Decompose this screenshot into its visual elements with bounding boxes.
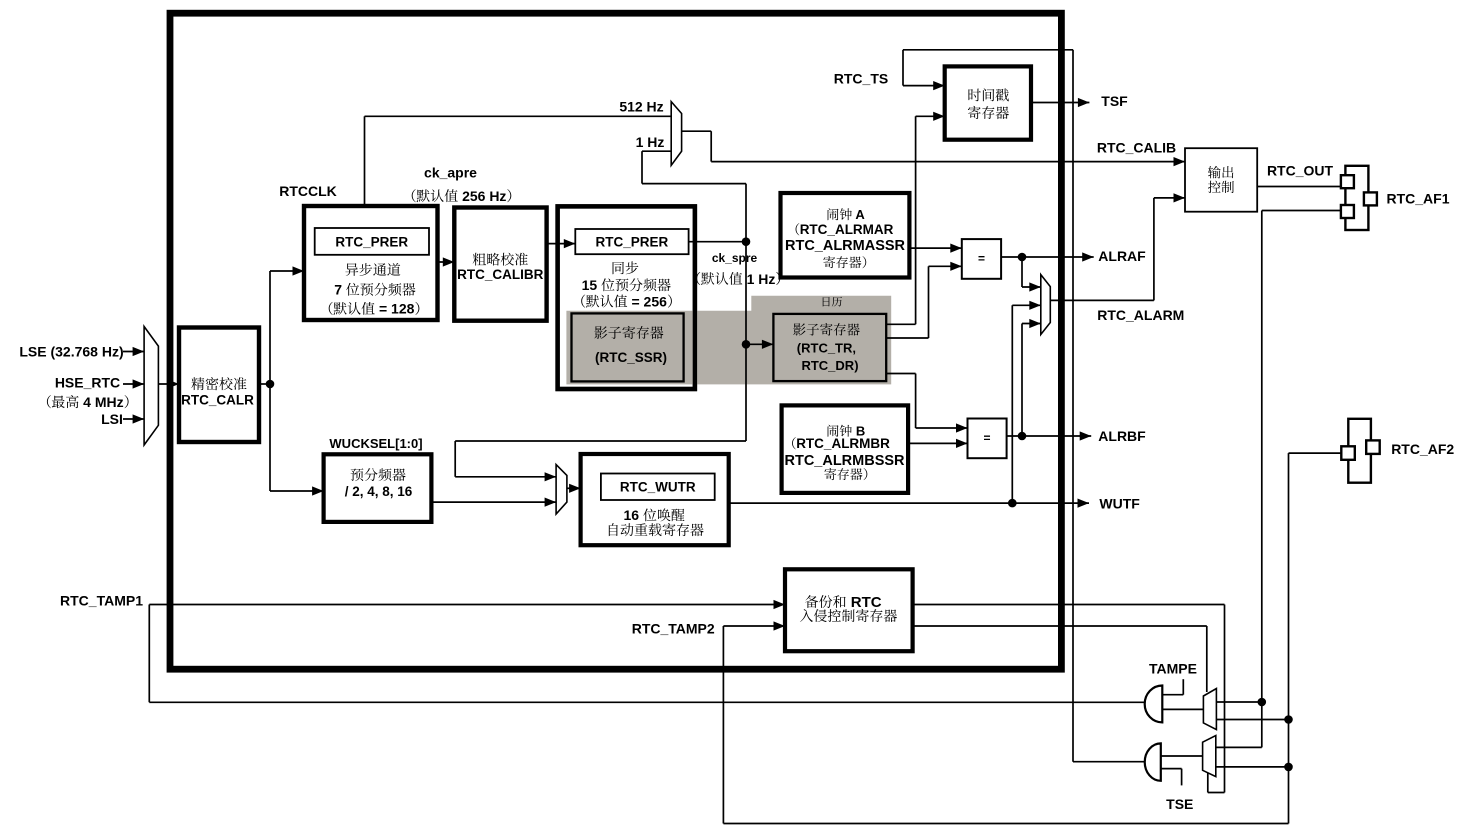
register shadow RTC_SSR box [572, 313, 684, 381]
svg-text:TSF: TSF [1101, 93, 1128, 109]
arrows [133, 347, 145, 356]
label alarm B cn [828, 425, 839, 437]
wire TAMPE mux to AF1 line [1216, 701, 1261, 703]
block async 7-bit prescaler [304, 206, 438, 320]
svg-text:LSE (32.768 Hz): LSE (32.768 Hz) [19, 344, 123, 360]
wire ck_spre to calendar [746, 343, 773, 345]
svg-text:=: = [983, 431, 990, 445]
wire LSE input [123, 351, 144, 353]
svg-text:ALRBF: ALRBF [1098, 428, 1146, 444]
wire RTC_TS top loop [903, 49, 1073, 51]
label fine calibration cn [191, 377, 204, 390]
wire TAMPE enable [1162, 694, 1183, 696]
svg-text:RTC_ALRMAR: RTC_ALRMAR [800, 222, 894, 237]
svg-text:HSE_RTC: HSE_RTC [55, 375, 120, 391]
label default 1Hz cn [696, 272, 700, 285]
label output cn [1208, 166, 1221, 179]
wire ck_spre vertical [745, 184, 747, 441]
wire timestamp select vertical [1072, 50, 1074, 762]
label tamper control cn [800, 609, 813, 622]
wire to TSE gate [1073, 761, 1145, 763]
label coarse calibration cn [473, 253, 486, 266]
wire TAMPE gate output [1162, 708, 1203, 710]
wire TSE mux to AF1 line [1216, 746, 1262, 748]
wire LSI input [123, 418, 144, 420]
svg-text:RTC_WUTR: RTC_WUTR [620, 480, 696, 495]
svg-text:ck_spre: ck_spre [712, 251, 758, 265]
wire RTC_OUT to AF1 pin [1257, 186, 1341, 188]
wire TAMPE mux to AF2 line [1216, 719, 1288, 721]
svg-text:RTC_ALRMBR: RTC_ALRMBR [796, 436, 890, 451]
wire backup output to TSE mux select [913, 604, 1225, 606]
svg-text:RTC_CALIB: RTC_CALIB [1097, 140, 1176, 156]
comparator B [968, 419, 1007, 459]
node WUTF branch [1008, 499, 1017, 508]
node junction RTC_CALR output [266, 380, 275, 389]
outer RTC boundary box [170, 13, 1061, 669]
label alarm B reg3 cn [824, 468, 836, 480]
wire sync PRER output to ck_spre node [689, 241, 746, 243]
block alarm A registers [781, 193, 910, 278]
node ck_spre top [742, 237, 751, 246]
wire TSE mux to AF2 line [1216, 766, 1289, 768]
wire alarm B to comparator B [908, 442, 968, 444]
label max 4MHz cn [47, 395, 51, 408]
label async channel cn [345, 263, 358, 276]
block alarm B registers [782, 405, 909, 493]
svg-text:ALRAF: ALRAF [1098, 248, 1146, 264]
svg-text:15: 15 [582, 277, 598, 293]
calendar gray region [566, 296, 891, 385]
svg-text:7: 7 [334, 282, 342, 298]
wire calendar to comparator B [885, 373, 916, 375]
svg-text:256 Hz: 256 Hz [458, 188, 506, 204]
wire RTC_ALARM to output control [1050, 299, 1154, 301]
block output control [1185, 148, 1257, 212]
block coarse calibration RTC_CALIBR [454, 208, 546, 321]
node ALRAF branch [1018, 253, 1027, 262]
svg-text:=: = [978, 252, 985, 266]
block sync prescaler border restroke [558, 206, 695, 389]
wire alarm A to comparator A [909, 247, 961, 249]
wire to async prescaler [270, 270, 304, 272]
label backup rtc cn [805, 595, 818, 608]
label timestamp cn 2 [968, 106, 981, 119]
register RTC_PRER async inner box [315, 228, 429, 255]
node ALRBF branch [1018, 432, 1027, 441]
svg-text:(RTC_TR,: (RTC_TR, [797, 341, 856, 356]
mux clock input LSE/HSE/LSI [144, 327, 158, 446]
register RTC_PRER sync inner box [575, 229, 688, 254]
label alarm A cn [828, 208, 839, 220]
wire ALRBF output [1007, 435, 1092, 437]
wire ALRAF branch to alarm mux [1021, 257, 1023, 287]
wire calib mux output [682, 130, 712, 132]
svg-text:A: A [852, 207, 865, 222]
label wakeup prescaler cn [351, 468, 364, 481]
wire AF1 pin tamper line [1262, 210, 1341, 212]
wire HSE input [123, 383, 144, 385]
label control cn [1208, 181, 1221, 193]
svg-text:WUTF: WUTF [1099, 495, 1140, 511]
node AF2 junction 2 [1284, 763, 1293, 772]
label default 256Hz cn [412, 189, 416, 202]
label alarm A reg3 cn [823, 256, 835, 268]
pin RTC_AF2 [1348, 419, 1371, 483]
wire calendar to comparator A [885, 337, 929, 339]
svg-text:RTC: RTC [847, 594, 882, 611]
label alarm A reg1 [796, 223, 800, 235]
svg-text:TSE: TSE [1166, 796, 1193, 812]
wire AF2 pin line [1289, 452, 1342, 454]
svg-text:1 Hz: 1 Hz [636, 134, 665, 150]
wire RTC_CALIB to output control [711, 161, 1185, 163]
mux wakeup clock [556, 465, 567, 514]
wire WUTF output [729, 502, 1089, 504]
svg-text:/ 2, 4, 8, 16: / 2, 4, 8, 16 [345, 484, 413, 499]
wire TSF output [1031, 102, 1089, 104]
gate TSE [1145, 743, 1161, 780]
svg-text:RTC_ALRMBSSR: RTC_ALRMBSSR [784, 453, 905, 469]
block fine calibration RTC_CALR [179, 328, 259, 443]
svg-text:512 Hz: 512 Hz [619, 99, 663, 115]
svg-text:RTCCLK: RTCCLK [279, 183, 337, 199]
wire wakeup mux to RTC_WUTR [567, 487, 581, 489]
svg-text:RTC_CALR: RTC_CALR [181, 392, 254, 407]
label timestamp cn 1 [968, 89, 980, 102]
wire input mux to RTC_CALR [158, 383, 179, 385]
wire WUTF branch to alarm mux [1011, 305, 1013, 503]
svg-text:RTC_PRER: RTC_PRER [596, 235, 669, 250]
svg-text:RTC_DR): RTC_DR) [801, 358, 858, 373]
svg-text:RTC_OUT: RTC_OUT [1267, 163, 1334, 179]
svg-text:RTC_AF1: RTC_AF1 [1386, 191, 1449, 207]
wire RTC_TAMP1 [149, 604, 785, 606]
wire coarse calib to sync prescaler [547, 243, 576, 245]
wire prescaler to wakeup mux [431, 501, 556, 503]
wire ALRBF branch to alarm mux [1021, 324, 1023, 437]
register calendar shadow RTC_TR RTC_DR box [773, 314, 886, 381]
block RTC_WUTR wakeup register [581, 454, 729, 545]
wire ALRAF output [1001, 256, 1094, 258]
label calendar cn [823, 297, 830, 306]
node ck_spre calendar [742, 340, 751, 349]
svg-text:RTC_ALARM: RTC_ALARM [1097, 307, 1184, 323]
block backup and tamper control registers [785, 569, 913, 651]
label alarm B reg1 [792, 437, 796, 449]
label sync cn [613, 262, 624, 274]
comparator A [962, 239, 1001, 279]
wire calendar to timestamp register [885, 323, 916, 325]
wire 1 Hz [642, 150, 671, 152]
svg-text:ck_apre: ck_apre [424, 165, 477, 181]
wire RTC_CALR output to junction [259, 383, 271, 385]
label autoreload register cn [609, 523, 618, 536]
block wakeup prescaler /2,4,8,16 [324, 454, 432, 522]
svg-text:= 256: = 256 [628, 293, 668, 309]
svg-text:16: 16 [624, 507, 640, 523]
label default 256 cn [581, 295, 585, 308]
mux RTC_ALARM select [1041, 275, 1051, 335]
svg-text:= 128: = 128 [375, 301, 415, 317]
svg-text:1 Hz: 1 Hz [743, 271, 776, 287]
svg-text:RTC_TAMP1: RTC_TAMP1 [60, 593, 143, 609]
register RTC_WUTR inner box [601, 474, 715, 501]
svg-text:4 MHz: 4 MHz [79, 394, 123, 410]
svg-text:RTC_CALIBR: RTC_CALIBR [457, 267, 543, 282]
block timestamp register [945, 66, 1031, 139]
svg-text:WUCKSEL[1:0]: WUCKSEL[1:0] [329, 436, 422, 451]
wire RTC_TS input [902, 50, 904, 86]
pin RTC_AF1 [1345, 166, 1368, 230]
wire junction vertical [269, 271, 271, 491]
gate TAMPE [1145, 686, 1163, 723]
svg-text:RTC_PRER: RTC_PRER [335, 234, 408, 249]
svg-text:RTC_TS: RTC_TS [834, 71, 888, 87]
wire RTCCLK branch up [364, 116, 366, 206]
svg-text:LSI: LSI [101, 411, 123, 427]
wire async to coarse calib [438, 261, 455, 263]
wire TSE enable [1161, 768, 1182, 770]
svg-text:RTC_AF2: RTC_AF2 [1391, 441, 1454, 457]
node AF1 tamper junction [1258, 698, 1267, 707]
svg-text:RTC_ALRMASSR: RTC_ALRMASSR [785, 238, 906, 254]
block sync 15-bit prescaler box (RTC_PRER sync) [558, 206, 695, 389]
label shadow register ssr cn [594, 326, 607, 339]
label shadow register cal cn [793, 323, 806, 335]
mux TAMPE pin select [1203, 689, 1216, 730]
mux 512Hz/1Hz calibration output [671, 102, 681, 166]
wire TSE gate output [1161, 755, 1203, 757]
wire to wakeup prescaler [270, 490, 324, 492]
label default 128 cn [329, 302, 333, 315]
svg-text:TAMPE: TAMPE [1149, 661, 1197, 677]
svg-text:(RTC_SSR): (RTC_SSR) [595, 350, 667, 365]
wire ck_spre to wakeup mux [455, 440, 746, 442]
node AF2 junction 1 [1284, 715, 1293, 724]
mux TSE pin select [1203, 736, 1216, 777]
wire bottom RTC_TAMP2 route [723, 823, 1288, 825]
svg-text:RTC_TAMP2: RTC_TAMP2 [632, 621, 715, 637]
wire backup output to TAMPE mux select [913, 625, 1207, 627]
wire 512 Hz [365, 115, 672, 117]
